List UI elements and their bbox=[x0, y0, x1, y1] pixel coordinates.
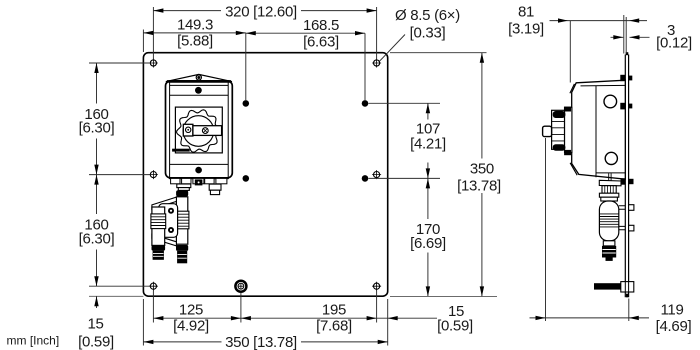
side connector nut bbox=[599, 193, 618, 201]
dimension 168.5 bbox=[246, 17, 365, 100]
svg-text:mm [Inch]: mm [Inch] bbox=[7, 334, 60, 348]
bracket center plate bbox=[159, 204, 178, 238]
dimension 81 bbox=[508, 3, 647, 82]
svg-text:[6.69]: [6.69] bbox=[410, 235, 446, 252]
side handle knob block bbox=[552, 110, 566, 151]
dimension 125 bottom bbox=[153, 291, 376, 335]
svg-text:[6.30]: [6.30] bbox=[79, 230, 115, 247]
side handle lever bbox=[543, 126, 552, 136]
svg-text:[4.69]: [4.69] bbox=[656, 318, 692, 335]
svg-text:195: 195 bbox=[322, 301, 346, 318]
hanger hole bbox=[196, 74, 202, 80]
svg-text:15: 15 bbox=[87, 316, 103, 333]
knob inner circle bbox=[183, 116, 214, 147]
switch panel bbox=[175, 107, 222, 153]
dimension 119 bbox=[530, 138, 692, 335]
rotary knob scalloped bbox=[177, 110, 221, 152]
svg-text:[6.30]: [6.30] bbox=[79, 120, 115, 137]
side view enclosure box bbox=[572, 80, 626, 179]
svg-text:[3.19]: [3.19] bbox=[508, 20, 544, 37]
left tube ribs bbox=[151, 214, 166, 229]
dimension 15 left bbox=[78, 296, 143, 350]
dimension 160 lower left bbox=[79, 175, 151, 287]
side connector threaded neck bbox=[602, 186, 616, 194]
side handle escutcheon bbox=[564, 107, 572, 156]
dimension 15 bottom right bbox=[377, 303, 473, 334]
svg-text:[13.78]: [13.78] bbox=[457, 178, 501, 195]
switch mounting dot A bbox=[243, 100, 250, 107]
hole diameter callout bbox=[380, 7, 461, 61]
right connector plug bbox=[209, 184, 221, 194]
switch mounting dot B bbox=[362, 100, 369, 107]
units note mm inch bbox=[7, 334, 60, 348]
dimension 350 bottom bbox=[143, 299, 387, 350]
handle screw bbox=[202, 128, 208, 134]
side connector flange bbox=[599, 173, 621, 186]
ground hole bottom-center bbox=[235, 281, 246, 292]
body seams bbox=[170, 85, 229, 164]
bracket screw 1 bbox=[168, 208, 174, 214]
svg-text:119: 119 bbox=[660, 301, 683, 318]
svg-text:[7.68]: [7.68] bbox=[316, 317, 352, 334]
svg-text:320 [12.60]: 320 [12.60] bbox=[225, 3, 297, 20]
left bottom ring bbox=[152, 245, 166, 250]
svg-text:[0.33]: [0.33] bbox=[410, 25, 446, 42]
bottom screw bbox=[195, 167, 202, 174]
svg-text:Ø 8.5 (6×): Ø 8.5 (6×) bbox=[395, 7, 460, 24]
hole bottom-right bbox=[372, 282, 381, 291]
svg-text:149.3: 149.3 bbox=[177, 16, 213, 33]
switch mounting dot C bbox=[243, 175, 250, 182]
svg-text:[0.59]: [0.59] bbox=[437, 317, 473, 334]
side connector bottom neck bbox=[603, 241, 615, 246]
svg-text:[4.92]: [4.92] bbox=[173, 317, 209, 334]
handle bar bbox=[193, 126, 222, 136]
right gland nut black bbox=[176, 190, 188, 196]
side cover screw lower bbox=[605, 152, 617, 164]
right bottom ring bbox=[176, 245, 188, 251]
left cable gland bbox=[177, 184, 191, 190]
dimension 195 bottom bbox=[241, 301, 377, 334]
plate clamp at enclosure bottom bbox=[621, 178, 634, 184]
plate clip second bbox=[620, 103, 632, 110]
svg-text:168.5: 168.5 bbox=[303, 17, 339, 34]
svg-text:125: 125 bbox=[179, 301, 203, 318]
mounting bolt side bbox=[594, 282, 634, 292]
plate clip upper bbox=[620, 75, 632, 81]
junction block assembly bbox=[151, 190, 189, 263]
right black tip bbox=[177, 251, 187, 263]
hanger triangle bbox=[166, 74, 232, 81]
off position mark bbox=[172, 149, 190, 152]
dimension 350 right bbox=[390, 53, 501, 297]
right tube bbox=[176, 197, 187, 244]
dimension 320 top bbox=[153, 3, 376, 59]
svg-text:[6.63]: [6.63] bbox=[303, 33, 339, 50]
lock circle bbox=[186, 127, 191, 132]
hole bottom-left bbox=[149, 282, 158, 291]
dimension 107 bbox=[369, 103, 446, 178]
bracket screw 2 bbox=[168, 227, 174, 233]
svg-text:[0.59]: [0.59] bbox=[78, 334, 114, 350]
disconnect switch front view bbox=[166, 74, 233, 178]
svg-text:81: 81 bbox=[518, 3, 534, 20]
svg-text:350 [13.78]: 350 [13.78] bbox=[225, 334, 297, 350]
svg-text:[0.12]: [0.12] bbox=[656, 35, 692, 52]
hole mid-left bbox=[149, 170, 158, 179]
dimension 170 bbox=[410, 178, 446, 296]
terminal tabs under switch bbox=[169, 178, 229, 185]
side cover screw upper bbox=[604, 95, 617, 108]
side connector black tip bbox=[602, 246, 616, 261]
side connector capsule body bbox=[599, 201, 618, 241]
top screw bbox=[195, 87, 202, 94]
hole top-left bbox=[149, 59, 158, 68]
bracket plate bottom diagonal bbox=[152, 234, 177, 246]
hole top-right bbox=[372, 59, 381, 68]
svg-text:[4.21]: [4.21] bbox=[410, 136, 446, 153]
hole mid-right bbox=[372, 170, 381, 179]
side view lid chamfer lines bbox=[570, 84, 577, 175]
switch mounting dot D bbox=[362, 175, 369, 182]
left tube bbox=[152, 207, 165, 245]
side view mounting plate bbox=[625, 52, 628, 297]
left black tip bbox=[153, 251, 164, 260]
mounting plate front view bbox=[143, 53, 387, 297]
right tube ribs bbox=[175, 211, 189, 229]
body side lines bbox=[170, 81, 229, 177]
capsule clips to plate bbox=[619, 205, 634, 231]
dimension 160 upper left bbox=[79, 63, 151, 175]
dimension 3 plate thickness bbox=[611, 15, 692, 54]
switch body bbox=[166, 81, 233, 178]
handle lock square bbox=[183, 124, 193, 136]
dimension 149.3 bbox=[143, 16, 245, 100]
svg-text:[5.88]: [5.88] bbox=[177, 33, 213, 50]
bracket plate top diagonal bbox=[152, 197, 177, 209]
svg-text:350: 350 bbox=[470, 160, 494, 177]
